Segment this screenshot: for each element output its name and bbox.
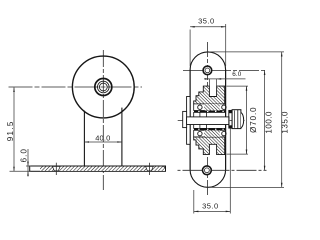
top hole horizontal centerline / 100.0 extension — [183, 69, 267, 71]
svg-text:6.0: 6.0 — [20, 148, 29, 162]
svg-text:35.0: 35.0 — [198, 17, 215, 26]
hub inner vertical line 2 — [206, 112, 208, 128]
arrow 6.0 right — [217, 78, 222, 80]
hub circle 3 — [98, 81, 110, 93]
hub circle inner — [99, 83, 107, 91]
svg-text:Ø70.0: Ø70.0 — [249, 107, 258, 133]
bottom hole horizontal centerline / 100.0 extension — [178, 169, 267, 171]
bottom seal white gaps — [198, 129, 199, 130]
svg-text:135.0: 135.0 — [281, 111, 290, 134]
svg-text:40.0: 40.0 — [95, 134, 110, 143]
washer body — [229, 110, 232, 128]
base plate right end chamfer — [163, 166, 165, 168]
nut facet line — [237, 110, 239, 129]
arrow 91.5 top — [13, 87, 15, 92]
svg-text:91.5: 91.5 — [6, 120, 15, 141]
hub circle outer dark band — [95, 79, 112, 96]
wire vertical centerline of wheel — [102, 50, 104, 190]
axle head left — [183, 111, 187, 127]
washer top black block — [229, 110, 232, 113]
top bearing row band — [194, 104, 226, 111]
dimension 35.0 bottom line — [194, 210, 231, 212]
dimension d70 line — [246, 86, 248, 154]
dimension d70 top extension — [227, 85, 249, 87]
arrow 35.0 top right — [221, 26, 226, 28]
arrow 40.0 right — [117, 141, 122, 143]
wheel section top flange (hatched) — [194, 86, 225, 104]
arrow 135.0 bottom — [281, 183, 283, 188]
plate left edge line over wheel — [189, 70, 191, 170]
bottom hole outer dark ring — [203, 166, 212, 175]
base plate outline — [30, 166, 166, 171]
top hole inner — [205, 68, 210, 73]
dimension 6.0 line — [27, 149, 29, 177]
bottom seal band — [194, 128, 226, 130]
arrow 135.0 top — [281, 52, 283, 57]
dimension 35.0 top: left extension — [189, 30, 191, 67]
countersunk hole right — [146, 166, 154, 170]
dimension 100.0 line — [264, 70, 266, 170]
dimension 6.0 groove: left extension — [208, 79, 210, 89]
bottom bearing ball left — [198, 131, 202, 135]
plate right edge line over wheel — [225, 70, 227, 170]
top bearing ball left — [198, 105, 202, 109]
top seal band — [194, 111, 226, 113]
countersunk hole left — [52, 166, 60, 170]
dimension 6.0 groove: right extension — [216, 79, 218, 89]
hub band — [194, 112, 226, 128]
nut body — [232, 110, 241, 129]
arrow 91.5 bottom — [13, 167, 15, 172]
hole right centerline — [148, 163, 150, 175]
svg-text:100.0: 100.0 — [265, 111, 274, 134]
washer bottom black block — [229, 125, 232, 128]
axle shaft — [187, 117, 229, 125]
svg-text:35.0: 35.0 — [202, 202, 219, 211]
dimension 6.0 groove line — [204, 78, 246, 80]
arrow d70 bottom — [246, 150, 248, 155]
hole left centerline — [55, 163, 57, 175]
arrow 100.0 top — [264, 70, 266, 75]
base plate hatching — [40, 167, 165, 171]
left plate tab — [187, 97, 191, 145]
arrow 35.0 bottom left — [194, 211, 199, 213]
bottom bearing row band — [194, 130, 226, 137]
arrow d70 top — [246, 86, 248, 91]
hub inner vertical line 1 — [199, 112, 201, 128]
dimension 135.0 bottom extension — [209, 186, 284, 188]
bottom bearing mid hatch — [204, 130, 220, 137]
swivel plate stadium outline — [190, 52, 226, 187]
dimension 40.0 line — [84, 141, 122, 143]
dimension 35.0 bottom: right extension — [229, 129, 231, 214]
nut facet line 2 — [234, 111, 236, 128]
arrow 6.0 top — [27, 162, 29, 166]
arrow 6.0 left — [205, 78, 210, 80]
dimension 35.0 top line — [190, 26, 226, 28]
bottom hole inner — [205, 168, 210, 173]
wire horizontal centerline of wheel — [9, 86, 143, 88]
dimension 135.0 top extension — [209, 51, 284, 53]
wire left support plate edge — [83, 111, 85, 166]
arrow 35.0 top left — [190, 26, 195, 28]
svg-text:6.0: 6.0 — [232, 71, 241, 78]
dimension 35.0 bottom: left extension — [193, 190, 195, 214]
arrow 6.0 bottom — [27, 171, 29, 175]
bottom bearing ball right — [222, 131, 226, 135]
wheel outer circle — [72, 56, 134, 118]
dimension 35.0 top: right extension — [225, 24, 227, 66]
top seal white gaps — [198, 111, 199, 112]
wire right support plate edge — [121, 108, 123, 166]
plate vertical centerline — [206, 42, 208, 196]
dimension 91.5 line — [13, 87, 15, 171]
dimension 91.5 extension bottom — [10, 170, 32, 172]
arrow 35.0 bottom right — [226, 211, 231, 213]
dimension 6.0 extension top — [26, 165, 31, 167]
nut dome end — [241, 113, 244, 128]
dimension d70 bottom extension — [227, 153, 249, 155]
top bearing mid hatch — [204, 104, 220, 111]
arrow 40.0 left — [84, 141, 89, 143]
axle shaft centerline — [178, 119, 245, 121]
top hole outer dark ring — [203, 66, 212, 75]
wheel section bottom flange (hatched) — [194, 137, 225, 155]
arrow 100.0 bottom — [264, 166, 266, 171]
top bearing ball right — [222, 105, 226, 109]
dimension 135.0 line — [281, 52, 283, 188]
